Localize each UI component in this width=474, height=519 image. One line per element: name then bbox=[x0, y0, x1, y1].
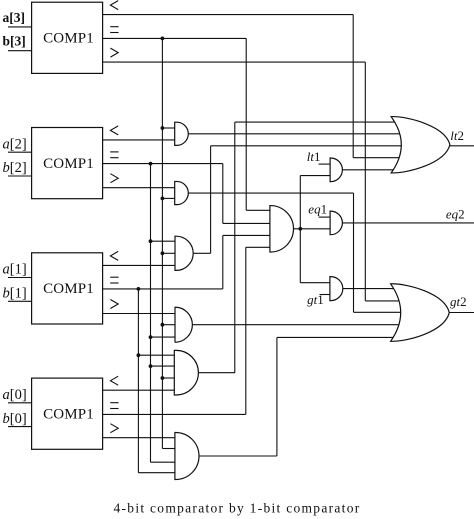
svg-text:a[0]: a[0] bbox=[3, 387, 27, 403]
svg-text:a[3]: a[3] bbox=[3, 10, 26, 25]
svg-text:b[2]: b[2] bbox=[3, 160, 27, 176]
svg-text:COMP1: COMP1 bbox=[43, 31, 94, 47]
svg-text:lt2: lt2 bbox=[450, 128, 464, 143]
svg-text:4-bit comparator by 1-bit comp: 4-bit comparator by 1-bit comparator bbox=[113, 501, 360, 516]
svg-text:eq1: eq1 bbox=[308, 202, 327, 217]
svg-text:a[2]: a[2] bbox=[3, 136, 27, 152]
svg-text:COMP1: COMP1 bbox=[43, 281, 94, 297]
svg-text:a[1]: a[1] bbox=[3, 262, 27, 278]
svg-text:lt1: lt1 bbox=[307, 149, 321, 164]
svg-text:eq2: eq2 bbox=[446, 206, 465, 221]
svg-text:gt2: gt2 bbox=[450, 294, 467, 309]
svg-text:b[1]: b[1] bbox=[3, 286, 27, 302]
svg-text:COMP1: COMP1 bbox=[43, 407, 94, 423]
svg-text:b[3]: b[3] bbox=[3, 34, 26, 49]
svg-text:gt1: gt1 bbox=[307, 292, 324, 307]
svg-text:COMP1: COMP1 bbox=[43, 156, 94, 172]
svg-text:b[0]: b[0] bbox=[3, 411, 27, 427]
